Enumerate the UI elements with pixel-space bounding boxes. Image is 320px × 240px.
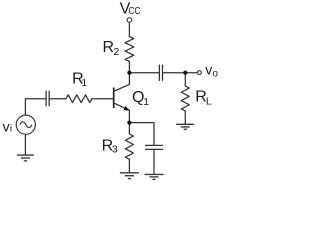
wire output node to vo terminal	[185, 72, 197, 74]
wire vi to ground	[24, 134, 26, 155]
wire vi to C1	[25, 99, 45, 115]
ground R3	[120, 173, 139, 179]
wire C2 to output node	[163, 72, 185, 74]
svg-text:2: 2	[113, 46, 119, 58]
resistor RL	[181, 86, 189, 111]
wire base of Q1	[92, 98, 114, 100]
wire emitter of Q1	[115, 103, 130, 122]
source vi	[16, 115, 35, 134]
wire C1 to R1	[50, 98, 66, 100]
wire collector node to capacitor C2	[129, 72, 159, 74]
node collector junction	[127, 71, 131, 75]
resistor R3	[125, 134, 133, 159]
resistor R1	[66, 95, 92, 103]
capacitor C3 emitter bypass	[146, 145, 163, 149]
svg-text:CC: CC	[129, 4, 141, 16]
wire R3 to ground	[128, 159, 130, 173]
wire VCC terminal to R2	[128, 22, 130, 36]
terminal vo	[198, 71, 202, 75]
svg-text:v: v	[3, 118, 10, 134]
svg-text:1: 1	[81, 77, 87, 89]
terminal VCC	[127, 18, 132, 23]
svg-text:R: R	[103, 39, 115, 56]
wire output node to RL	[184, 73, 186, 86]
svg-text:i: i	[10, 124, 12, 135]
node emitter junction	[127, 121, 131, 125]
ground RL	[176, 124, 194, 129]
svg-text:1: 1	[143, 96, 149, 108]
resistor R2	[125, 37, 134, 62]
wire C3 to ground	[153, 149, 155, 174]
wire emitter node to C3	[129, 123, 154, 146]
svg-text:o: o	[212, 68, 218, 79]
transistor Q1	[114, 88, 130, 111]
wire emitter node to R3	[128, 123, 130, 134]
node output junction	[183, 71, 187, 75]
svg-text:L: L	[206, 96, 212, 108]
wire RL to ground	[184, 111, 186, 124]
capacitor C1 input coupling	[46, 91, 49, 106]
svg-text:v: v	[205, 62, 212, 78]
capacitor C2 output coupling	[159, 65, 162, 80]
svg-text:3: 3	[112, 143, 118, 155]
ground C3	[145, 174, 164, 179]
ground vi	[17, 155, 34, 161]
wire R2 to collector node	[128, 62, 130, 73]
wire collector of Q1	[115, 73, 130, 91]
